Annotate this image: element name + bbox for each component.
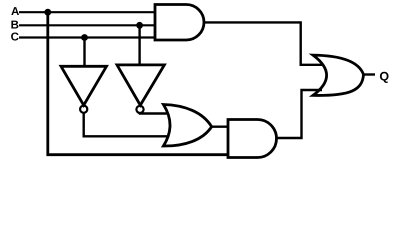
wire AND2 output to OR2 lower input bbox=[277, 90, 323, 138]
wire C down to inverter U1 bbox=[83, 38, 85, 67]
inverter U1 bubble bbox=[80, 106, 87, 113]
svg-text:A: A bbox=[11, 6, 19, 18]
wire U2 output right to OR1 upper input bbox=[140, 112, 169, 115]
inverter U1 triangle bbox=[61, 66, 107, 105]
or-gate OR1 bbox=[163, 105, 211, 147]
wire C horizontal bbox=[19, 36, 155, 38]
junction dot on C bbox=[81, 34, 88, 41]
inverter U2 triangle bbox=[117, 65, 164, 105]
inverter U2 bubble bbox=[136, 106, 143, 113]
svg-text:C: C bbox=[11, 32, 19, 44]
wire U1 output down and right to OR1 lower input bbox=[84, 113, 168, 137]
and-gate AND2 bbox=[228, 120, 277, 158]
junction dot on B bbox=[136, 22, 143, 29]
and-gate AND1 (3-input) bbox=[155, 5, 204, 41]
wire B down to inverter U2 bbox=[138, 25, 140, 65]
junction dot on A bbox=[44, 9, 51, 16]
wire A down and along bottom to AND2 bbox=[48, 12, 229, 155]
svg-text:B: B bbox=[11, 19, 19, 31]
or-gate OR2 bbox=[313, 55, 364, 95]
wire AND1 output to OR2 upper input bbox=[203, 22, 323, 64]
wire OR2 output to Q bbox=[364, 73, 376, 75]
wire OR1 output to AND2 bbox=[212, 125, 229, 127]
svg-text:Q: Q bbox=[379, 70, 389, 84]
wire B horizontal bbox=[19, 24, 155, 26]
wire A horizontal bbox=[19, 11, 155, 13]
